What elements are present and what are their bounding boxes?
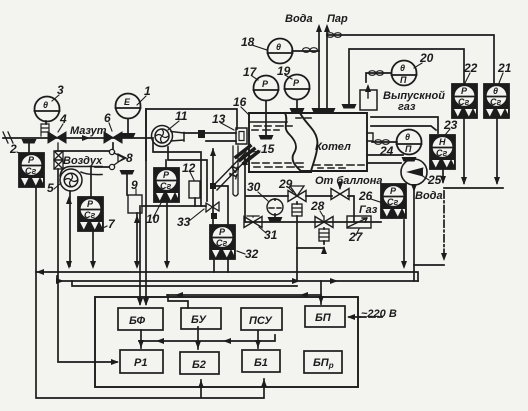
wire boiler to pump duct	[368, 155, 403, 163]
svg-text:31: 31	[264, 228, 278, 242]
actuator 29	[292, 204, 302, 216]
wire BF to R1	[140, 330, 142, 348]
wire vozduh line upper	[56, 150, 109, 152]
wire circle1 stem	[127, 119, 129, 133]
gauge 17 (P)	[254, 76, 279, 101]
svg-text:19: 19	[277, 64, 291, 78]
boiler wavy divider left	[285, 113, 301, 171]
box 21 theta/Cg	[484, 84, 509, 118]
wire y248 to actuator28	[297, 247, 324, 249]
pointer 28	[320, 211, 323, 216]
box 32 P/Cg	[210, 225, 235, 259]
svg-text:32: 32	[245, 247, 259, 261]
wire drum tap to box22	[349, 49, 464, 104]
box 22 P/Cg	[452, 84, 477, 118]
wire row connector y341	[139, 335, 275, 341]
chain near 24	[375, 140, 390, 145]
wire circle17 stem	[265, 101, 267, 135]
pointer 18	[252, 45, 267, 50]
pointer 16	[241, 107, 249, 115]
wire box32 down	[214, 259, 228, 272]
svg-text:16: 16	[233, 95, 247, 109]
svg-text:Е: Е	[124, 97, 131, 107]
svg-text:Н: Н	[439, 137, 446, 147]
svg-text:Воздух: Воздух	[63, 155, 103, 167]
fan 5	[60, 167, 102, 192]
pointer 31	[259, 227, 266, 233]
pointer 30	[258, 192, 268, 201]
pointer 13	[221, 123, 234, 130]
pointer 21	[499, 73, 503, 83]
pointer 9	[135, 189, 137, 194]
tube 14	[233, 146, 238, 196]
pointer 12	[190, 172, 194, 180]
wire voda pipe	[318, 27, 320, 109]
selector 8	[109, 149, 126, 169]
wire bus to BP	[320, 281, 322, 304]
pointer 3	[52, 95, 59, 101]
svg-text:Пар: Пар	[327, 13, 348, 25]
burner 15 hatch bars	[236, 146, 258, 163]
pointer 7	[101, 226, 107, 229]
arrow up x219	[210, 148, 216, 156]
wire y265 link	[414, 265, 444, 281]
svg-text:23: 23	[443, 118, 458, 132]
pointer 15	[252, 151, 260, 152]
gauge 20 (theta/P)	[392, 61, 417, 86]
wire box26 down to bus	[403, 220, 405, 266]
chain near 18	[303, 48, 318, 53]
svg-text:θ: θ	[493, 86, 498, 96]
pointer 22	[465, 73, 470, 83]
pointer 5	[54, 183, 61, 189]
valve 29	[288, 186, 306, 202]
wire chain24 link	[372, 141, 397, 143]
pointer 25	[421, 175, 429, 180]
pointer 26	[371, 199, 380, 202]
block B1	[242, 350, 280, 372]
gauge 3 (theta)	[35, 97, 60, 122]
boiler water hatching	[252, 118, 364, 168]
gauge 18 (theta)	[268, 39, 293, 64]
base of gauge 17 inside boiler	[259, 135, 274, 140]
burner feed diagonals	[213, 152, 250, 190]
svg-text:θ: θ	[43, 100, 48, 110]
wire pipe break ticks	[3, 132, 13, 143]
wire 220v dashdot	[443, 191, 445, 258]
svg-text:6: 6	[104, 111, 111, 125]
svg-text:9: 9	[131, 178, 138, 192]
svg-text:θ: θ	[276, 42, 281, 52]
wire box7 stem up	[90, 167, 92, 198]
svg-text:25: 25	[427, 173, 442, 187]
svg-text:Р: Р	[390, 186, 397, 196]
par pipe arrowhead	[324, 24, 330, 32]
arrow up x245	[242, 157, 248, 165]
svg-text:Б1: Б1	[254, 357, 268, 369]
gauge 24 (theta/P)	[397, 130, 422, 155]
svg-text:Сг: Сг	[387, 197, 398, 207]
svg-text:Сг: Сг	[216, 238, 227, 248]
wire PSU down	[257, 331, 259, 348]
svg-text:28: 28	[310, 199, 325, 213]
block BF	[118, 308, 163, 330]
box 23 H/Cg	[430, 135, 455, 169]
pointer 32	[237, 251, 245, 254]
small double box under valve 4	[54, 143, 63, 169]
wire gas branch line y196	[246, 196, 354, 222]
svg-text:27: 27	[348, 230, 364, 244]
wire par line to box21	[327, 35, 494, 84]
valve ot ballona	[331, 189, 349, 200]
wire gas main y222	[245, 221, 381, 223]
chain on par line	[327, 33, 342, 38]
base of gauge 19 on drum	[290, 108, 305, 113]
wire valve4 box down to R1	[58, 169, 117, 362]
pointer 17	[252, 76, 258, 80]
wire box12 stem down	[194, 198, 196, 206]
block R1	[120, 350, 163, 373]
svg-text:θ: θ	[405, 132, 410, 142]
svg-text:Б2: Б2	[192, 359, 206, 371]
pointer 6	[109, 123, 112, 131]
wire bus1 y272	[36, 272, 418, 281]
junction node on duct	[198, 130, 205, 138]
svg-text:8: 8	[126, 151, 133, 165]
svg-text:П: П	[400, 75, 407, 85]
wire flue to box23	[371, 117, 438, 133]
svg-text:2: 2	[9, 142, 17, 156]
svg-text:БФ: БФ	[129, 315, 146, 327]
wire y295 line	[167, 294, 321, 296]
box 26 P/Cg	[381, 184, 406, 218]
wire right bus y188	[444, 187, 503, 189]
svg-text:18: 18	[241, 35, 255, 49]
box 2 P/Cg	[19, 153, 44, 187]
svg-text:24: 24	[379, 144, 394, 158]
wire box21 down	[496, 119, 498, 183]
svg-text:Сг: Сг	[490, 97, 501, 107]
svg-text:ПСУ: ПСУ	[249, 315, 273, 327]
gauge 1 (E)	[116, 94, 141, 119]
wire chain20 link	[366, 73, 391, 82]
arrowheads onto buses	[36, 269, 44, 275]
wire x297 down to bus	[296, 248, 298, 281]
fan 11	[152, 126, 185, 147]
svg-text:26: 26	[358, 189, 373, 203]
svg-text:Р: Р	[28, 155, 35, 165]
arrow into ballona valve	[337, 182, 343, 190]
wire vert x245 burner to gas line	[244, 158, 246, 222]
svg-text:~220 В: ~220 В	[361, 308, 397, 320]
wire actuator28 stem	[323, 228, 325, 244]
svg-text:Сг: Сг	[84, 210, 95, 220]
svg-text:Р: Р	[219, 227, 226, 237]
node on x219	[210, 183, 216, 189]
base on pipe above box 2	[22, 139, 37, 144]
pointer 1	[137, 96, 146, 105]
svg-text:11: 11	[175, 109, 188, 123]
wire fan5 down	[69, 191, 71, 266]
svg-text:Р: Р	[87, 199, 94, 209]
pointer 10	[153, 203, 161, 218]
pointer 29	[289, 188, 293, 192]
base under 24	[402, 157, 417, 162]
actuator 28	[319, 229, 329, 241]
gauge 19 (P)	[285, 75, 310, 100]
svg-text:22: 22	[463, 61, 478, 75]
wire box23 down	[442, 169, 444, 182]
wire box10 down	[166, 201, 168, 266]
box 7 P/Cg	[78, 197, 103, 231]
valve 4 (filled)	[48, 132, 66, 143]
svg-text:5: 5	[47, 181, 54, 195]
svg-text:От баллона: От баллона	[315, 175, 382, 187]
wire box9 to valve33 line	[142, 205, 206, 207]
wire left long vertical from box2	[36, 186, 264, 398]
wire air duct top	[146, 109, 237, 160]
arrows into blocks	[137, 298, 143, 306]
wire box7 down	[92, 230, 94, 266]
svg-text:Р: Р	[293, 78, 300, 88]
valve 31	[244, 216, 262, 228]
wire circle30 tab and base	[274, 199, 276, 217]
svg-text:Р: Р	[461, 86, 468, 96]
svg-text:Сг: Сг	[160, 181, 171, 191]
svg-text:П: П	[405, 144, 412, 154]
box 10 P/Cg	[154, 168, 179, 202]
block BU	[181, 308, 221, 329]
svg-text:12: 12	[182, 161, 196, 175]
pointer 23	[445, 129, 450, 135]
pointer 4	[58, 124, 63, 132]
control unit outer box	[95, 297, 358, 387]
svg-text:Сг: Сг	[436, 148, 447, 158]
wire base2 stem	[28, 143, 30, 153]
chain near 20	[369, 71, 384, 76]
base of voda pipe	[312, 108, 327, 113]
wire line y160	[153, 140, 207, 206]
svg-text:Мазут: Мазут	[70, 125, 107, 137]
voda pipe arrowhead	[316, 24, 322, 32]
svg-text:15: 15	[261, 142, 275, 156]
svg-text:Вода: Вода	[285, 13, 313, 25]
svg-text:17: 17	[243, 65, 258, 79]
block B2	[180, 352, 219, 374]
wire fan11 to burner duct	[184, 133, 236, 141]
base of par pipe	[321, 108, 336, 113]
svg-text:Котел: Котел	[315, 141, 351, 153]
wire BU top link	[168, 295, 188, 308]
wire feedback into BF	[140, 109, 146, 304]
box 12	[189, 181, 200, 198]
wire box22 down	[463, 119, 465, 183]
svg-text:1: 1	[144, 84, 151, 98]
wire base8 stem to box9	[126, 173, 128, 195]
coil under gauge 3	[41, 124, 49, 136]
boiler outline	[249, 113, 367, 172]
svg-text:3: 3	[57, 83, 64, 97]
wire mazut pipe	[3, 137, 153, 139]
svg-text:газ: газ	[398, 101, 416, 113]
wire bus3 y286	[72, 281, 297, 286]
wire node219 to x229 down	[213, 186, 228, 225]
box 9	[128, 195, 142, 213]
wire 220 into BP	[349, 316, 360, 318]
wire vert x219 burner down to box32	[212, 149, 214, 225]
pump 25	[401, 159, 427, 185]
valve 28	[315, 216, 333, 228]
pointer 33	[189, 209, 204, 221]
pointer 20	[414, 63, 422, 68]
wire actuator29 down	[296, 216, 298, 248]
svg-text:20: 20	[419, 51, 434, 65]
base under gauge 1	[121, 133, 136, 138]
wire ot ballona arrow stem	[339, 182, 341, 188]
wire pump25 down	[413, 185, 415, 265]
svg-text:29: 29	[278, 177, 293, 191]
pointer 11	[168, 121, 179, 130]
svg-text:Вода: Вода	[415, 190, 443, 202]
chimney arrow up	[367, 87, 369, 98]
chimney box	[360, 90, 377, 110]
svg-text:13: 13	[212, 112, 226, 126]
wire chain18 link	[292, 50, 319, 52]
svg-text:33: 33	[177, 215, 191, 229]
svg-text:10: 10	[146, 212, 160, 226]
svg-text:Р: Р	[262, 79, 269, 89]
wire valve29 stem down to actuator	[296, 202, 298, 204]
svg-text:БП: БП	[315, 312, 332, 324]
svg-text:30: 30	[247, 180, 261, 194]
pointer 2	[17, 152, 24, 156]
base under 30	[268, 217, 283, 222]
gauge 30 small	[267, 199, 283, 215]
wire box10 stem up	[165, 160, 167, 168]
base of drum tap x349	[342, 104, 357, 109]
svg-text:Сг: Сг	[25, 166, 36, 176]
wire bus2 y281	[57, 276, 418, 281]
boiler wavy divider right	[300, 113, 317, 171]
svg-text:Р: Р	[163, 170, 170, 180]
svg-text:21: 21	[497, 61, 512, 75]
svg-text:Р1: Р1	[134, 357, 147, 369]
block BPr	[304, 351, 342, 373]
block PSU	[241, 308, 282, 330]
svg-text:Газ: Газ	[359, 204, 378, 216]
valve 6 (filled)	[104, 132, 122, 143]
pointer 27	[356, 229, 359, 235]
pointer 19	[285, 75, 292, 79]
pipe arrow mazut	[82, 135, 90, 141]
wire circle3 coil stem	[45, 121, 47, 124]
wire circle19 stem	[296, 100, 298, 108]
wire vozduh line lower	[95, 143, 113, 167]
wire 220 dash lead	[360, 316, 382, 318]
box 13	[236, 128, 247, 144]
wire par pipe	[326, 27, 328, 109]
svg-text:4: 4	[59, 112, 67, 126]
valve 33 (diagonal)	[206, 202, 219, 212]
base under selector 8	[120, 170, 135, 175]
svg-text:БУ: БУ	[191, 314, 208, 326]
wire box9 down	[136, 213, 138, 266]
svg-text:θ: θ	[400, 63, 405, 73]
block BP	[305, 306, 345, 327]
svg-text:Сг: Сг	[458, 97, 469, 107]
boiler right stub to 24	[367, 133, 373, 141]
wire BU down	[197, 327, 199, 349]
filter 27	[347, 216, 371, 228]
